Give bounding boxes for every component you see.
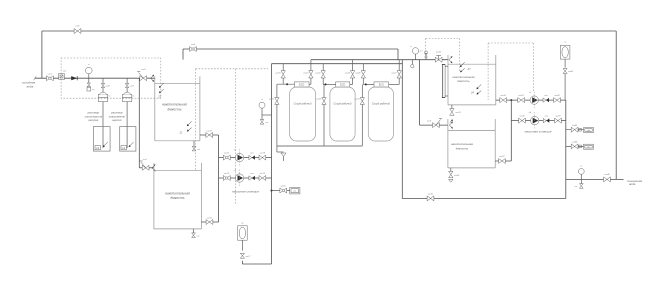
control head V1 xyxy=(295,82,310,87)
svg-text:24: 24 xyxy=(470,91,474,95)
node: suction junction right xyxy=(510,99,512,101)
valve UV branch xyxy=(571,124,581,132)
valve P4 suction xyxy=(519,116,526,124)
wire: pump line 2 right xyxy=(511,120,566,122)
tank1L level switch 22 xyxy=(157,83,163,99)
svg-text:LS: LS xyxy=(122,147,125,150)
wire: raw water inlet main line xyxy=(34,76,155,80)
UV unit box xyxy=(584,128,594,133)
pressure gauge product xyxy=(410,46,418,60)
dosing pump ND2 xyxy=(122,92,135,101)
valve P4 discharge xyxy=(555,115,562,124)
dashed box R2 xyxy=(488,43,533,100)
svg-text:ёмкость: ёмкость xyxy=(168,107,182,111)
label solution 2 xyxy=(109,111,127,123)
wire: tank2L outlet xyxy=(201,221,218,223)
node: junction flow branch xyxy=(271,190,273,192)
svg-text:вода: вода xyxy=(27,84,34,88)
control valve tank1 fill xyxy=(137,69,146,81)
valve P1 discharge xyxy=(259,152,266,161)
valve GA xyxy=(563,59,574,100)
svg-text:шк36: шк36 xyxy=(454,175,460,177)
control head V3 xyxy=(374,82,389,87)
wire: V1 head tie xyxy=(277,83,295,85)
dosing tank 1 LS switch xyxy=(95,142,108,150)
pump station 1 label xyxy=(232,190,259,194)
motor valve product xyxy=(435,52,442,63)
valve meter branch xyxy=(571,140,581,149)
wire: suction manifold left xyxy=(218,135,220,222)
svg-text:ёмкость: ёмкость xyxy=(456,146,469,150)
svg-text:накопительная: накопительная xyxy=(453,75,475,79)
wire: raw-water bypass line xyxy=(42,31,616,179)
expansion vessel CP xyxy=(238,222,248,240)
svg-text:насосная станция: насосная станция xyxy=(232,190,259,194)
tank1L label xyxy=(162,103,187,112)
svg-text:накопительная: накопительная xyxy=(165,191,190,195)
svg-text:шк21: шк21 xyxy=(269,98,275,100)
valve V1 drain xyxy=(269,84,279,152)
wire: bypass drain line xyxy=(402,60,566,199)
svg-text:21: 21 xyxy=(179,130,183,134)
svg-text:шк16: шк16 xyxy=(280,186,286,188)
label solution 1 xyxy=(85,111,103,123)
svg-text:ECO: ECO xyxy=(299,83,304,86)
wire: CP connection xyxy=(242,240,271,264)
level gauge tube tank1R xyxy=(442,64,448,97)
svg-text:ёмкость: ёмкость xyxy=(171,196,185,200)
check valve P1 xyxy=(249,153,255,160)
dosing tank 1 xyxy=(93,127,110,152)
wire: inlet manifold line3 xyxy=(272,63,403,65)
valve overflow xyxy=(190,43,197,51)
svg-text:шк38: шк38 xyxy=(518,95,524,97)
control valve tank2 fill xyxy=(140,159,149,170)
valve tank2R outlet xyxy=(499,156,506,163)
svg-text:шк25: шк25 xyxy=(316,98,322,100)
vessel V3 xyxy=(368,87,393,141)
svg-text:ECO: ECO xyxy=(340,83,345,86)
pressure gauge M1 xyxy=(86,64,93,78)
sample valve under gauge xyxy=(87,78,95,91)
svg-text:шк23: шк23 xyxy=(345,73,351,75)
dosing tank 2 xyxy=(120,127,136,152)
pressure gauge discharge xyxy=(259,99,272,115)
valve V2 inlet xyxy=(315,64,325,85)
valve P3 suction xyxy=(518,95,525,102)
valve tank1R outlet xyxy=(500,94,507,102)
membrane tank GA xyxy=(560,42,570,60)
svg-text:Сосуд рабочий: Сосуд рабочий xyxy=(334,101,352,105)
svg-text:шк12: шк12 xyxy=(224,153,230,155)
inlet spray arrows tank1R xyxy=(449,56,452,63)
valve tank1L outlet xyxy=(206,130,213,137)
tank1R label xyxy=(453,75,475,83)
wire: outlet line xyxy=(566,178,624,180)
tank2L label xyxy=(165,191,190,200)
wire: overflow return line xyxy=(183,49,398,60)
sample point product xyxy=(420,51,428,60)
svg-text:накопительная: накопительная xyxy=(162,103,187,107)
valve P2 suction xyxy=(223,173,230,181)
valve P2 discharge xyxy=(259,173,266,181)
svg-text:вода: вода xyxy=(629,182,636,186)
valve V3 product xyxy=(389,60,402,85)
svg-text:шк15: шк15 xyxy=(260,173,266,175)
dosing pump ND1 xyxy=(98,92,111,101)
valve bypass xyxy=(74,26,81,34)
svg-text:шк19: шк19 xyxy=(303,73,309,75)
wire: V3 head tie xyxy=(363,83,374,85)
svg-text:шк11: шк11 xyxy=(207,217,213,219)
inlet spray arrows tank2R xyxy=(449,122,452,129)
svg-text:шк29: шк29 xyxy=(354,98,360,100)
wire: suction manifold right xyxy=(510,100,512,161)
pump N3 xyxy=(529,92,539,109)
pump N1 xyxy=(234,149,244,166)
dosing tee 2 valve xyxy=(125,78,134,92)
pump N4 xyxy=(529,111,539,129)
tank1R bottom valve xyxy=(450,105,462,123)
tank1R level switch 24 xyxy=(470,84,481,94)
wire: V2 head tie xyxy=(323,83,336,85)
valve tank2L outlet xyxy=(206,217,213,224)
svg-text:LS: LS xyxy=(96,147,99,150)
control valve tank2R fill xyxy=(427,118,442,127)
storage tank 2 left xyxy=(154,163,202,229)
valve V2 drain xyxy=(316,84,326,146)
svg-text:ёмкость: ёмкость xyxy=(457,79,470,83)
valve outlet xyxy=(604,173,611,182)
check valve P3 xyxy=(543,95,549,102)
svg-text:Сосуд рабочий: Сосуд рабочий xyxy=(372,101,390,105)
wire: discharge riser left xyxy=(271,64,273,264)
dashed box dosing skid xyxy=(61,58,161,98)
valve flow branch xyxy=(280,186,287,193)
check valve inlet (black) xyxy=(71,76,77,80)
sample valve outlet xyxy=(574,179,583,188)
valve drain line xyxy=(427,193,434,201)
check valve P4 xyxy=(543,116,549,123)
svg-text:шк17: шк17 xyxy=(245,256,251,258)
storage tank 1 right xyxy=(448,55,496,105)
storage tank 1 left xyxy=(155,76,200,141)
wire: meter branch right xyxy=(566,145,584,147)
valve P1 suction xyxy=(223,153,230,161)
inlet spray arrows tank2L xyxy=(152,164,155,171)
wire: tank2L fill line xyxy=(139,78,154,168)
valve V3 inlet xyxy=(355,64,365,85)
wire: tank1R outlet / pump line 1 right xyxy=(496,99,566,101)
wire: pump line 2 left xyxy=(219,177,272,179)
valve V3 drain xyxy=(354,84,364,146)
valve V1 product xyxy=(303,60,313,85)
valve inlet xyxy=(47,73,54,80)
svg-text:шк22: шк22 xyxy=(315,73,321,75)
wire: tank2R outlet xyxy=(495,160,511,162)
wire: dosing pump1 to tank xyxy=(102,102,104,148)
vessel V2 xyxy=(330,87,355,141)
dosing tee 1 valve xyxy=(101,78,110,92)
svg-text:шк26: шк26 xyxy=(355,73,361,75)
tank1L drain valve xyxy=(192,141,201,151)
wire: UV branch xyxy=(566,129,584,131)
svg-text:натрия: натрия xyxy=(88,118,99,122)
valve V2 product xyxy=(345,60,355,85)
svg-text:27: 27 xyxy=(467,67,471,71)
tank2L drain valve xyxy=(192,229,201,238)
control head V2 xyxy=(336,82,350,87)
node: raw water inlet label xyxy=(22,81,36,89)
tank2R drain valve xyxy=(449,168,460,182)
svg-text:накопительная: накопительная xyxy=(451,142,473,146)
svg-text:кш30: кш30 xyxy=(436,52,442,54)
dashed boundary mid xyxy=(196,69,269,204)
wire: tank1L outlet xyxy=(200,134,219,136)
wire: dosing pump2 to tank xyxy=(126,102,128,148)
vessel V1 xyxy=(290,87,316,141)
svg-text:шк39: шк39 xyxy=(519,116,525,118)
funnel V1 drain xyxy=(277,152,286,161)
valve P3 discharge xyxy=(554,94,561,102)
svg-text:Сосуд рабочий: Сосуд рабочий xyxy=(294,101,312,105)
pump station 2 label xyxy=(525,130,552,134)
pressure gauge outlet xyxy=(578,166,584,180)
tank1R level switch 27 xyxy=(460,62,471,72)
svg-text:шк13: шк13 xyxy=(224,173,230,175)
wire: tank2R fill line xyxy=(420,60,448,125)
wire: pump line 1 left xyxy=(219,157,272,159)
filter F1 xyxy=(59,69,66,79)
valve V1 inlet xyxy=(275,64,285,84)
svg-text:шк37: шк37 xyxy=(499,156,505,158)
flow meter box xyxy=(290,188,300,194)
svg-text:шк31: шк31 xyxy=(428,193,434,195)
check valve P2 xyxy=(249,173,255,180)
air vent product xyxy=(411,60,414,68)
svg-text:шк33: шк33 xyxy=(455,112,461,114)
storage tank 2 right xyxy=(448,119,495,168)
valve CP xyxy=(240,253,251,258)
wire: drain manifold xyxy=(277,145,362,147)
flow meter box right xyxy=(584,144,594,149)
tank2R label xyxy=(451,142,473,150)
tank1L level switch 21 xyxy=(179,121,192,134)
wire: flow meter branch xyxy=(272,190,290,192)
dashed box R1 xyxy=(426,38,460,72)
inlet spray arrows tank1L xyxy=(151,75,154,82)
svg-text:шк10: шк10 xyxy=(207,130,213,132)
svg-text:шк27: шк27 xyxy=(391,73,397,75)
svg-text:шк18: шк18 xyxy=(275,73,281,75)
svg-text:щелочи: щелочи xyxy=(112,118,122,122)
node: clean water label xyxy=(627,179,642,186)
dosing tank 2 LS switch xyxy=(121,142,133,150)
wire: product manifold line2 xyxy=(311,59,448,61)
svg-text:насосная станция: насосная станция xyxy=(525,130,552,134)
svg-text:ECO: ECO xyxy=(379,83,384,86)
pump N2 xyxy=(234,170,244,187)
sample valve discharge xyxy=(260,115,269,124)
